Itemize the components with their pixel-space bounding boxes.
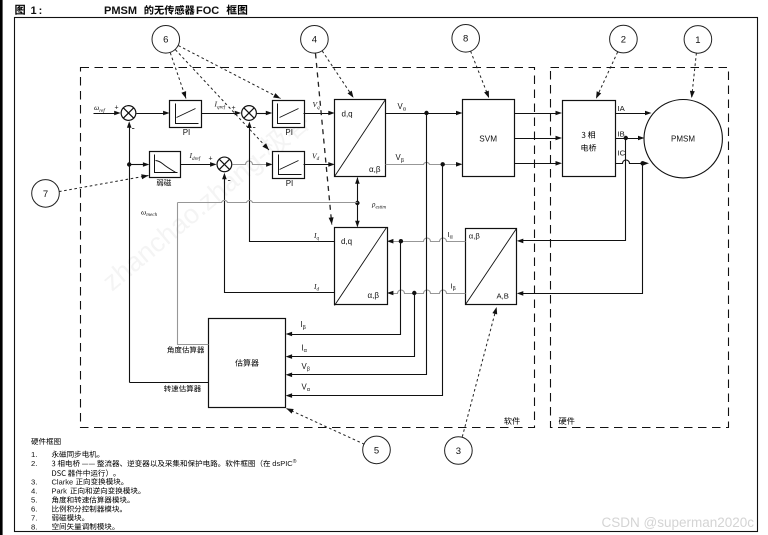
Park block alpha,beta to d,q <box>335 228 388 305</box>
wire IB sense down to Clarke <box>523 139 626 241</box>
callout line 4 to inverse Park <box>322 51 353 98</box>
node omega to field weakening <box>127 162 131 166</box>
PMSM motor circle <box>644 100 722 178</box>
node IC sense <box>640 161 644 165</box>
software dashed box <box>81 68 535 428</box>
legend 1 text <box>52 451 100 458</box>
label 转速估算器 <box>164 385 201 392</box>
svg-text:α,β: α,β <box>369 165 381 174</box>
wire I_beta Clarke to Park (gray) <box>393 290 466 294</box>
callout line 4 to Park <box>316 54 332 225</box>
svg-text:3: 3 <box>456 446 461 457</box>
node V_alpha branch <box>424 111 428 115</box>
legend 6 text <box>52 505 122 512</box>
svg-text:4: 4 <box>312 35 317 46</box>
svg-text:5.: 5. <box>31 496 37 505</box>
svg-text:3.: 3. <box>31 477 37 486</box>
legend 8 text <box>52 523 114 530</box>
wire Vd to inverse Park <box>304 164 329 166</box>
legend 4 cjk <box>70 487 140 494</box>
summer 1 (speed error) <box>121 106 136 121</box>
arrowhead V_alpha into SVM <box>456 111 463 116</box>
svg-text:IA: IA <box>618 104 626 113</box>
arrowhead into PI d <box>266 162 273 167</box>
svg-text:+: + <box>209 156 213 163</box>
wire speed feedback up to summer1 <box>129 128 131 383</box>
left black bar <box>0 0 3 535</box>
wire angle estimate vertical (gray) <box>178 203 209 345</box>
hardware dashed box <box>551 68 729 428</box>
Clarke diagonal <box>466 229 517 305</box>
arrowhead IC into Clarke <box>517 291 524 296</box>
wire to field weakening <box>130 164 144 166</box>
label 弱磁 <box>157 179 172 186</box>
arrowhead speed into summer1 <box>127 121 132 128</box>
svg-text:-: - <box>228 176 231 187</box>
wire Iq feedback to summer2q <box>250 128 335 242</box>
callout line 3 to Clarke <box>462 307 496 437</box>
legend 3 cjk <box>76 478 124 485</box>
svg-text:7.: 7. <box>31 514 37 523</box>
legend 2 cont <box>52 469 115 476</box>
arrowhead rho into inverse Park <box>355 177 360 184</box>
arrowhead estimator in 2 <box>286 354 293 359</box>
arrowhead IA <box>645 111 652 116</box>
arrowhead phase C <box>556 161 563 166</box>
arrowhead into PI speed <box>163 111 170 116</box>
legend 5 text <box>52 496 130 503</box>
wire V_beta branch to estimator input 4 <box>292 165 443 396</box>
svg-text:1:: 1: <box>31 5 45 17</box>
PI q-current controller block <box>273 101 305 128</box>
svg-text:PMSM: PMSM <box>671 135 695 144</box>
wire rho_estim angle between Park blocks <box>357 178 359 227</box>
svg-text:PI: PI <box>183 128 191 137</box>
svg-text:+: + <box>115 105 119 112</box>
wire IA to PMSM <box>616 113 646 115</box>
arrowhead IB <box>638 136 645 141</box>
arrowhead estimator in 3 <box>286 373 293 378</box>
estimator block 估算器 <box>209 319 286 408</box>
svg-text:PI: PI <box>286 179 294 188</box>
svg-text:6: 6 <box>163 35 168 46</box>
callout 5 (estimator) <box>363 436 391 464</box>
svg-text:2.: 2. <box>31 459 37 468</box>
svg-text:8.: 8. <box>31 522 37 531</box>
SVM block <box>463 100 515 177</box>
svg-text:1: 1 <box>695 35 700 46</box>
svg-text:PI: PI <box>285 128 293 137</box>
wire I_alpha Clarke to Park (gray) <box>393 238 466 242</box>
arrowhead estimator in 1 <box>286 332 293 337</box>
wire summer2d to PI d (gray) <box>233 161 267 164</box>
arrowhead Id into summer2d <box>222 173 227 180</box>
node rho / angle feedback <box>355 201 359 205</box>
legend header 硬件框图 <box>31 438 60 445</box>
arrowhead into summer 2q <box>235 111 242 116</box>
wire V_alpha branch to estimator input 3 <box>292 114 427 375</box>
3-phase bridge block 3相电桥 <box>563 101 616 177</box>
wire PI speed to summer 2q <box>202 113 236 115</box>
arrowhead Vd into inverse Park <box>328 162 335 167</box>
label 软件 <box>504 417 520 425</box>
arrowhead phase B <box>556 136 563 141</box>
arrowhead Vq into inverse Park <box>328 111 335 116</box>
callout 4 (Park transforms) <box>301 26 329 54</box>
wire to estimator input 1 <box>292 242 401 335</box>
callout line 2 to bridge <box>596 52 618 99</box>
svg-text:4.: 4. <box>31 487 37 496</box>
svg-text:FOC: FOC <box>196 5 219 17</box>
callout line 1 to PMSM <box>692 53 697 98</box>
summer 2q (Iq error) <box>242 106 257 121</box>
arrowhead into PI q <box>266 111 273 116</box>
callout line 6 to PI q <box>178 46 280 99</box>
arrowhead estimator in 4 <box>286 393 293 398</box>
callout 2 (3-phase bridge) <box>610 25 638 53</box>
svg-text:5: 5 <box>374 445 379 456</box>
node IB sense <box>624 136 628 140</box>
wire Idref to summer 2d <box>181 164 211 166</box>
svg-text:6.: 6. <box>31 505 37 514</box>
arrowhead V_beta into SVM <box>456 162 463 167</box>
wire to estimator input 2 <box>292 294 415 357</box>
svg-text:PMSM: PMSM <box>104 5 137 17</box>
legend 2 text <box>52 460 270 467</box>
callout line 8 to SVM <box>471 51 489 98</box>
svg-text:IC: IC <box>618 148 626 157</box>
PI d-current controller block <box>273 152 305 179</box>
wire angle estimate (gray) to rho node <box>178 200 358 202</box>
field weakening block 弱磁 <box>150 152 181 178</box>
svg-text:A,B: A,B <box>497 291 509 300</box>
wire IB to PMSM <box>616 138 639 140</box>
svg-text:1.: 1. <box>31 450 37 459</box>
callout line 7 to field weakening <box>59 176 149 192</box>
callout line 5 to estimator <box>286 408 364 444</box>
wire V_beta to SVM (gray) <box>386 162 458 164</box>
wire Id feedback to summer2d <box>225 179 335 293</box>
svg-text:α,β: α,β <box>368 291 380 300</box>
svg-text:Clarke: Clarke <box>52 477 74 486</box>
arrowhead into summer 1 <box>114 111 121 116</box>
svg-text:8: 8 <box>463 34 468 45</box>
arrowhead IC <box>643 161 650 166</box>
inverse Park diagonal <box>335 100 386 177</box>
wire SVM phase B to bridge <box>515 138 557 140</box>
wire omega_ref input <box>94 113 117 115</box>
node V_beta branch <box>441 162 445 166</box>
callout 7 (field weakening) <box>32 180 60 208</box>
node I_beta branch <box>412 291 416 295</box>
svg-text:Park: Park <box>52 487 68 496</box>
callout 3 (Clarke) <box>445 437 473 465</box>
callout line 6 to PI d <box>175 50 269 150</box>
arrowhead IB into Clarke <box>517 239 524 244</box>
PI speed controller block <box>170 101 202 128</box>
arrowhead Iq into summer2q <box>247 122 252 129</box>
label 估算器 <box>235 359 259 366</box>
svg-text:CSDN @superman2020c: CSDN @superman2020c <box>602 515 755 530</box>
svg-text:α,β: α,β <box>469 231 481 240</box>
svg-text:SVM: SVM <box>479 134 497 143</box>
arrowhead I_beta into Park <box>387 291 394 296</box>
svg-text:2: 2 <box>621 35 626 46</box>
Park diagonal <box>335 228 387 306</box>
callout 6 (PI controllers) <box>152 26 180 54</box>
wire SVM phase A to bridge <box>515 113 557 115</box>
callout 1 (PMSM) <box>684 26 712 54</box>
Clarke block alpha,beta A,B <box>466 229 517 305</box>
title: 图 <box>15 5 25 15</box>
svg-text:-: - <box>132 124 135 135</box>
wire speed estimate to feedback <box>130 382 209 384</box>
callout line 6 to PI speed <box>170 53 186 99</box>
arrowhead rho into Park <box>355 221 360 228</box>
node I_alpha branch <box>399 239 403 243</box>
summer 2d (Id error) <box>217 157 232 172</box>
arrowhead phase A <box>556 111 563 116</box>
inverse Park block d,q to alpha,beta <box>335 100 386 177</box>
wire V_alpha to SVM <box>386 113 457 115</box>
svg-text:d,q: d,q <box>341 237 352 246</box>
svg-text:7: 7 <box>43 189 48 200</box>
wire IC sense down to Clarke <box>523 164 643 294</box>
svg-text:-: - <box>253 123 256 134</box>
arrowhead I_alpha into Park <box>387 239 394 244</box>
wire IC to PMSM <box>616 160 644 164</box>
label 3 相 <box>582 131 595 138</box>
svg-text:IB: IB <box>618 129 625 138</box>
wire SVM phase C to bridge <box>515 163 557 165</box>
label 电桥 <box>582 144 597 151</box>
callout 8 (SVM) <box>452 25 480 53</box>
legend 7 text <box>52 514 84 521</box>
wire Vq to inverse Park <box>304 113 329 115</box>
wire summer1 to PI speed <box>137 113 164 115</box>
wire summer2q to PI q <box>257 113 267 115</box>
label 硬件 <box>559 417 575 425</box>
label 角度估算器 <box>167 346 204 353</box>
svg-text:d,q: d,q <box>342 110 353 119</box>
arrowhead into field weakening <box>143 162 150 167</box>
arrowhead into summer 2d <box>210 162 217 167</box>
